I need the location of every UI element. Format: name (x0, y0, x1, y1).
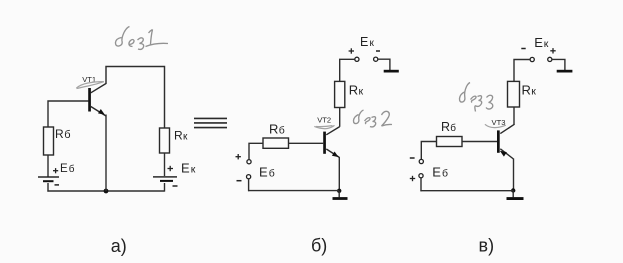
label + (Eb v) (410, 176, 415, 181)
svg-text:E: E (360, 35, 368, 49)
label Ek (b) (360, 35, 375, 49)
svg-text:E: E (259, 164, 268, 179)
wire: +Eb terminal to rail (v) (420, 178, 422, 191)
svg-text:R: R (349, 82, 358, 97)
wire: -Eb terminal to Rb (v) (421, 142, 436, 160)
terminal: + of Eb (v) (419, 174, 423, 178)
wire: -Ek terminal to ground (b) (378, 59, 390, 70)
wire: +Ek terminal to Rk (b) (340, 59, 355, 81)
battery Eb (a) (38, 176, 59, 182)
terminal: - of Ek (v) (530, 57, 534, 61)
svg-text:E: E (432, 164, 441, 179)
transistor VT2 (323, 127, 340, 158)
label Eb (a) (60, 163, 75, 175)
svg-text:б: б (269, 167, 275, 179)
equivalence sign (194, 118, 227, 127)
wire: +Eb terminal to Rb (b) (249, 143, 263, 159)
svg-text:а): а) (111, 236, 127, 256)
svg-text:к: к (544, 38, 549, 50)
wire: bottom rail (b) (248, 190, 339, 192)
terminal: + of Ek (v) (548, 57, 552, 61)
svg-text:к: к (191, 163, 196, 175)
annotation: pencil "bez 2" (353, 110, 392, 127)
annotation: pencil "bez 3" (459, 83, 492, 112)
transistor VT3 (497, 124, 515, 159)
ground (b top right) (384, 70, 399, 73)
terminal: + of Eb (b) (247, 160, 251, 164)
svg-text:б: б (450, 122, 456, 134)
wire: emitter to junction (v) (513, 159, 515, 191)
label + (Eb a) (53, 168, 58, 173)
svg-text:в): в) (479, 236, 495, 256)
label - (Ek v) (521, 48, 525, 50)
node: emitter junction (a) (104, 189, 109, 194)
node: emitter junction (b) (337, 189, 341, 193)
label + (Ek v) (550, 48, 555, 53)
label Ek (v) (534, 35, 549, 50)
svg-text:б: б (442, 167, 448, 179)
label - (Eb a) (55, 184, 60, 186)
label + (Ek a) (168, 166, 174, 171)
label - (Ek b) (376, 50, 380, 52)
label Rk (b) (349, 82, 364, 97)
terminal: - of Eb (v) (419, 159, 423, 163)
wire: -Ek terminal to Rk (v) (514, 60, 530, 82)
label Rb (a) (55, 127, 71, 141)
svg-text:к: к (359, 85, 364, 97)
label Rk (v) (522, 82, 537, 97)
wire: -Eb terminal to rail (b) (248, 179, 250, 191)
resistor Rk (a) (160, 128, 170, 153)
annotation: pencil mark under VT3 (485, 124, 506, 127)
wire: base lead and Rb top lead (a) (48, 101, 88, 127)
label + (Eb b) (236, 154, 241, 159)
wire: Rk to collector (b) (339, 108, 341, 127)
annotation: pencil "bez 1" (115, 27, 168, 50)
label Eb (b) (259, 164, 275, 179)
label - (Eb v) (410, 157, 415, 159)
wire: collector top wire (a) (106, 67, 165, 129)
wire: junction to ground (b) (338, 191, 340, 198)
node: emitter junction (v) (511, 188, 515, 192)
wire: Ek to bottom rail (a) (164, 183, 166, 192)
label b) (311, 236, 327, 256)
label VT2 (317, 116, 331, 125)
svg-text:к: к (531, 85, 536, 97)
resistor Rk (b) (335, 81, 345, 107)
resistor Rb (v) (437, 137, 463, 147)
label VT3 (492, 118, 506, 127)
wire: Rk to collector (v) (513, 107, 515, 125)
resistor Rk (v) (508, 81, 520, 107)
ground (b bottom) (333, 197, 348, 200)
wire: emitter to rail (a) (105, 115, 107, 192)
wire: Rk to Ek (a) (164, 153, 166, 176)
svg-text:R: R (55, 127, 64, 141)
terminal: - of Eb (b) (247, 175, 251, 179)
annotation: pencil mark under VT2 (314, 125, 334, 128)
svg-text:б: б (69, 163, 75, 175)
svg-text:R: R (522, 82, 531, 97)
svg-text:VT2: VT2 (317, 116, 331, 125)
svg-text:E: E (534, 35, 543, 50)
wire: Eb to bottom rail (a) (47, 183, 49, 192)
svg-text:б): б) (311, 236, 327, 256)
wire: Rb to base (v) (462, 141, 497, 143)
label Eb (v) (432, 164, 448, 179)
wire: +Ek terminal to ground (v) (552, 59, 565, 70)
transistor VT1 (88, 84, 106, 117)
ground (v top right) (557, 70, 573, 73)
annotation: pencil mark under VT1 (76, 82, 104, 89)
resistor Rb (a) (44, 127, 54, 155)
wire: Rb to base (b) (289, 142, 324, 144)
svg-text:E: E (60, 163, 68, 175)
wire: emitter to junction (b) (338, 157, 340, 190)
label Ek (a) (181, 160, 196, 175)
svg-text:R: R (269, 122, 278, 137)
wire: junction to ground (v) (512, 191, 514, 198)
label + (Ek b) (349, 48, 354, 53)
label - (Ek a) (173, 185, 178, 187)
wire: bottom rail (v) (420, 190, 513, 192)
battery Ek (a) (153, 176, 177, 182)
wire: Rb to Eb (a) (47, 155, 49, 177)
label v) (479, 236, 495, 256)
label a) (111, 236, 127, 256)
terminal: + of Ek (b) (355, 57, 359, 61)
svg-text:б: б (279, 125, 285, 137)
svg-text:E: E (181, 160, 190, 175)
terminal: - of Ek (b) (374, 57, 378, 61)
svg-text:к: к (183, 131, 188, 142)
label Rb (b) (269, 122, 285, 137)
resistor Rb (b) (263, 138, 289, 148)
label VT1 (82, 75, 96, 84)
label Rk (a) (174, 128, 188, 142)
svg-text:к: к (370, 38, 375, 49)
ground (v bottom) (507, 197, 524, 200)
svg-text:R: R (441, 120, 450, 134)
svg-text:б: б (64, 129, 70, 141)
wire: bottom rail (a) (47, 190, 164, 192)
label - (Eb b) (237, 180, 242, 182)
svg-text:R: R (174, 128, 183, 142)
label Rb (v) (441, 120, 456, 134)
